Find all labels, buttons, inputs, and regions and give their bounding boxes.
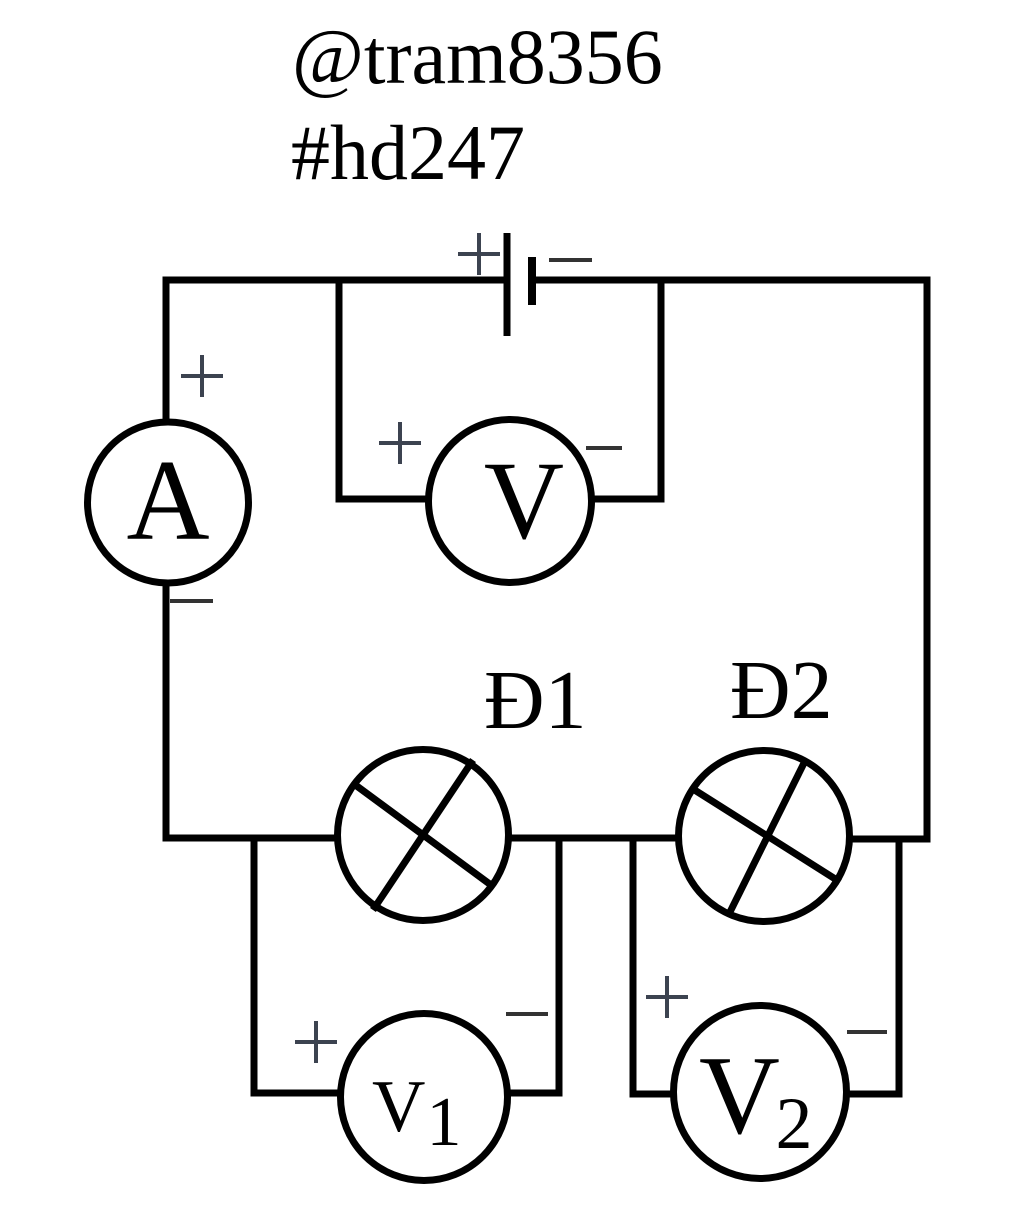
voltmeter V2 minus sign [847, 1030, 887, 1034]
svg-text:Đ2: Đ2 [730, 644, 833, 737]
voltmeter V1 minus sign [506, 1012, 548, 1016]
wire voltmeter V loop right horizontal [590, 496, 665, 503]
wire voltmeter V2 loop left vertical [630, 835, 637, 1098]
wire top horizontal right (battery - plate to top-right corner) [532, 277, 930, 284]
voltmeter V2 circle [674, 1006, 847, 1179]
lamp D1 cross stroke steep [373, 760, 473, 910]
battery minus sign [549, 258, 592, 262]
wire voltmeter V2 loop right vertical [896, 836, 903, 1098]
lamp D2 circle [679, 751, 850, 922]
wire voltmeter V2 loop right horizontal [845, 1091, 903, 1098]
wire top horizontal left (to battery + plate) [163, 277, 508, 284]
wire top-left vertical (top wire to ammeter) [163, 277, 170, 420]
svg-text:2: 2 [776, 1083, 813, 1165]
wire voltmeter V loop right vertical [658, 277, 665, 503]
voltmeter V1 circle [341, 1014, 508, 1181]
lamp D1 circle [338, 750, 509, 921]
wire right vertical [924, 277, 931, 843]
voltmeter V2 plus sign [646, 976, 688, 1018]
ammeter plus sign [181, 355, 223, 397]
wire voltmeter V1 loop left vertical [251, 835, 258, 1097]
svg-text:A: A [126, 437, 209, 564]
wire middle horizontal segment 3 (lamp D2 to right corner) [847, 836, 931, 843]
lamp D1 cross stroke shallow [354, 784, 491, 885]
voltmeter V circle [429, 420, 592, 583]
battery positive long plate [504, 233, 511, 336]
voltmeter V plus sign [379, 422, 421, 464]
svg-text:Đ1: Đ1 [484, 654, 587, 747]
svg-text:V: V [699, 1034, 780, 1158]
wire voltmeter V2 loop left horizontal [630, 1091, 676, 1098]
voltmeter V minus sign [586, 446, 622, 450]
ammeter A circle [88, 422, 249, 583]
lamp D2 cross stroke shallow [693, 789, 840, 882]
battery plus sign [458, 233, 500, 275]
voltmeter V1 plus sign [295, 1021, 337, 1063]
wire middle horizontal segment 2 (lamp D1 to lamp D2) [506, 835, 681, 842]
wire voltmeter V loop left vertical [336, 277, 343, 503]
wire voltmeter V loop left horizontal [336, 496, 431, 503]
wire left vertical (ammeter to middle wire) [163, 586, 170, 842]
svg-text:1: 1 [427, 1084, 462, 1161]
wire voltmeter V1 loop left horizontal [251, 1090, 343, 1097]
wire middle horizontal segment 1 (left to lamp D1) [163, 835, 341, 842]
battery negative short plate [528, 257, 536, 305]
ammeter minus sign [170, 599, 213, 603]
wire voltmeter V1 loop right vertical [556, 835, 563, 1097]
svg-text:#hd247: #hd247 [291, 109, 525, 196]
wire voltmeter V1 loop right horizontal [507, 1090, 563, 1097]
svg-text:@tram8356: @tram8356 [292, 13, 663, 100]
svg-text:V: V [484, 440, 564, 563]
svg-text:V: V [372, 1066, 425, 1148]
lamp D2 cross stroke steep [728, 759, 806, 916]
